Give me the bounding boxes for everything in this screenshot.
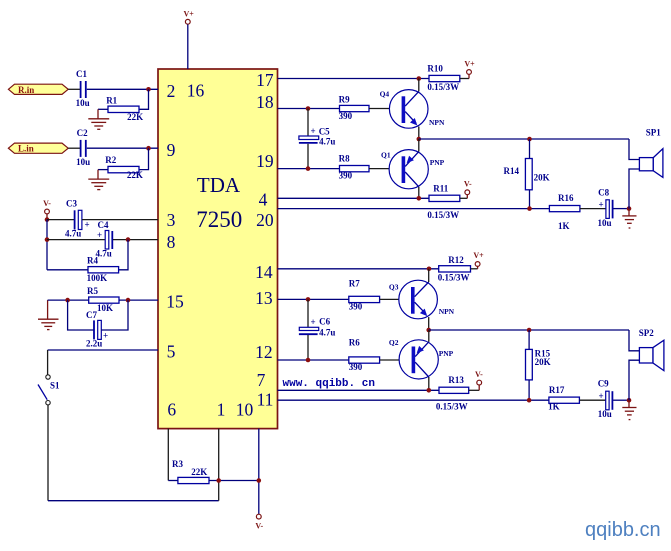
terminal V+ top	[184, 10, 195, 25]
wire R1 to ground	[98, 108, 108, 110]
svg-text:C9: C9	[598, 378, 609, 388]
svg-text:R11: R11	[433, 183, 449, 193]
svg-text:R2: R2	[105, 155, 116, 165]
node Q4 collector junction	[417, 76, 422, 81]
wire pin 1 down	[218, 429, 220, 501]
wire R6 to Q2 base	[380, 359, 421, 361]
svg-text:SP1: SP1	[646, 127, 662, 137]
wire Q2 emitter up	[428, 330, 430, 342]
svg-text:C3: C3	[66, 199, 77, 209]
svg-text:11: 11	[257, 390, 274, 410]
svg-text:R6: R6	[349, 338, 360, 348]
resistor R16	[549, 193, 580, 231]
resistor R6	[349, 338, 380, 372]
switch S1	[38, 375, 60, 405]
resistor R12	[438, 255, 471, 282]
terminal V- bottom	[255, 514, 263, 530]
resistor R4	[87, 256, 119, 283]
node speaker2 ground junction	[627, 398, 632, 403]
svg-text:+: +	[599, 200, 604, 210]
svg-text:22K: 22K	[127, 170, 143, 180]
resistor R1	[106, 96, 143, 123]
wire to C4	[47, 239, 105, 241]
wire L.in to C2	[68, 147, 80, 149]
svg-text:NPN: NPN	[429, 118, 445, 127]
svg-text:16: 16	[187, 81, 205, 101]
svg-text:6: 6	[167, 400, 176, 420]
svg-text:C4: C4	[98, 220, 109, 230]
wire pin 11 row	[278, 399, 549, 401]
svg-text:20: 20	[256, 210, 274, 230]
svg-text:10u: 10u	[76, 98, 90, 108]
capacitor C9	[598, 378, 613, 419]
wire ground to R5	[48, 299, 89, 301]
wire junction down to R4	[119, 240, 128, 270]
svg-text:R14: R14	[504, 166, 520, 176]
terminal V- left	[43, 199, 51, 220]
svg-text:R17: R17	[549, 385, 565, 395]
svg-text:S1: S1	[50, 381, 60, 391]
svg-text:L.in: L.in	[18, 144, 34, 154]
svg-text:10u: 10u	[76, 157, 90, 167]
svg-text:9: 9	[167, 140, 176, 160]
input port R.in	[8, 84, 68, 95]
node mid rail left	[417, 137, 422, 142]
svg-text:4: 4	[259, 190, 268, 210]
capacitor C5	[299, 109, 335, 169]
capacitor C2	[76, 128, 90, 167]
node R5/C7 left junction	[65, 298, 70, 303]
wire switch down	[47, 405, 49, 501]
svg-text:C5: C5	[319, 127, 330, 137]
wire pin 6 down	[167, 429, 169, 481]
svg-text:390: 390	[339, 111, 353, 121]
svg-text:14: 14	[255, 262, 273, 282]
svg-text:V+: V+	[464, 60, 475, 69]
resistor R17	[548, 385, 579, 411]
svg-text:10u: 10u	[598, 218, 612, 228]
svg-text:C8: C8	[598, 188, 609, 198]
transistor Q1 (PNP)	[381, 150, 445, 189]
node pin9/R2 junction	[146, 146, 151, 151]
terminal V+ (R10)	[464, 60, 475, 79]
svg-text:15: 15	[166, 292, 184, 312]
svg-text:qqibb.cn: qqibb.cn	[585, 519, 661, 541]
wire Q3 collector up	[428, 269, 430, 282]
wire pin 19 row	[278, 168, 340, 170]
svg-text:+: +	[311, 126, 316, 136]
svg-text:R5: R5	[87, 286, 98, 296]
svg-text:1: 1	[217, 400, 226, 420]
node Q2 collector junction	[427, 388, 432, 393]
svg-text:390: 390	[349, 301, 363, 311]
node R5/C7 right junction	[126, 298, 131, 303]
svg-text:4.7u: 4.7u	[319, 137, 335, 147]
svg-text:Q3: Q3	[389, 282, 399, 291]
svg-text:0.15/3W: 0.15/3W	[427, 82, 459, 92]
svg-text:TDA: TDA	[197, 173, 241, 197]
wire C8 to ground node	[614, 208, 630, 210]
svg-text:12: 12	[255, 342, 273, 362]
svg-text:7250: 7250	[196, 207, 242, 232]
wire pin 4 row	[278, 197, 430, 199]
svg-text:R9: R9	[339, 94, 350, 104]
wire R14 top	[529, 139, 531, 159]
resistor R5	[87, 286, 119, 313]
wire pin 14 row	[278, 268, 439, 270]
svg-text:4.7u: 4.7u	[319, 327, 335, 337]
svg-text:R.in: R.in	[18, 85, 34, 95]
capacitor C4	[96, 220, 113, 259]
wire R17 to C9	[579, 399, 605, 401]
svg-text:22K: 22K	[191, 467, 207, 477]
svg-text:+: +	[97, 230, 102, 240]
svg-text:PNP: PNP	[439, 349, 454, 358]
wire R.in to C1	[68, 88, 80, 90]
svg-text:V+: V+	[473, 251, 484, 260]
wire R12 to V+	[471, 268, 478, 270]
svg-text:Q4: Q4	[380, 89, 390, 98]
node R14 top junction	[527, 137, 532, 142]
node pin2/R1 junction	[146, 87, 151, 92]
wire junction down to R1	[139, 89, 149, 109]
capacitor C7	[86, 310, 108, 349]
node V-/C3 junction	[45, 217, 50, 222]
terminal V+ (R12)	[473, 251, 484, 269]
node speaker ground junction	[627, 206, 632, 211]
wire pin 17 row	[278, 78, 430, 80]
svg-text:R1: R1	[106, 96, 117, 106]
wire pin 6 to R3	[168, 480, 178, 482]
wire mid rail lower to speaker	[429, 329, 629, 331]
wire R10 to V+	[460, 78, 469, 80]
resistor R2	[105, 155, 143, 180]
wire R16 to C8	[580, 208, 606, 210]
node Q1 collector junction	[417, 196, 422, 201]
wire pin 7 row	[278, 389, 440, 391]
svg-text:+: +	[103, 331, 108, 341]
svg-text:2.2u: 2.2u	[86, 339, 102, 349]
wire R13 to V-	[469, 389, 480, 391]
speaker SP1	[639, 127, 663, 177]
svg-text:V-: V-	[43, 199, 51, 208]
node C6 top junction	[306, 297, 311, 302]
wire R15 top	[528, 330, 530, 349]
wire speaker2 top lead	[629, 330, 639, 351]
wire C9 to ground node	[613, 399, 629, 401]
wire bottom run to pin 1	[48, 500, 219, 502]
resistor R15	[526, 348, 551, 380]
IC U1 TDA7250 body	[158, 69, 278, 429]
svg-text:0.15/3W: 0.15/3W	[436, 402, 468, 412]
wire C7 branch left	[68, 300, 94, 330]
wire Q2 collector down	[428, 377, 430, 390]
resistor R8	[339, 154, 369, 181]
svg-text:10: 10	[236, 400, 254, 420]
svg-text:+: +	[311, 317, 316, 327]
wire Q4 emitter down	[418, 127, 420, 140]
svg-text:R16: R16	[558, 193, 574, 203]
wire pin 5 row	[48, 349, 158, 351]
svg-text:+: +	[599, 391, 604, 401]
svg-text:390: 390	[339, 171, 353, 181]
wire pin 10 down	[258, 429, 260, 515]
svg-text:C6: C6	[319, 317, 330, 327]
wire Q4 collector up	[418, 79, 420, 92]
node mid rail lower left	[426, 328, 431, 333]
capacitor C6	[299, 299, 335, 360]
svg-text:R10: R10	[427, 64, 443, 74]
terminal V- (R11)	[464, 180, 472, 199]
capacitor C1	[76, 69, 90, 108]
wire speaker bottom lead	[629, 169, 639, 209]
svg-text:390: 390	[349, 362, 363, 372]
svg-text:3: 3	[167, 210, 176, 230]
resistor R11	[427, 183, 459, 220]
wire speaker2 bottom lead	[629, 360, 639, 400]
svg-text:19: 19	[256, 151, 274, 171]
wire C3 to pin 3	[82, 219, 158, 221]
transistor Q4 (NPN)	[380, 89, 445, 128]
svg-text:R4: R4	[87, 256, 98, 266]
wire V- node to C3	[47, 219, 74, 221]
resistor R13	[436, 375, 469, 411]
wire R14 bottom	[529, 190, 531, 209]
svg-text:C1: C1	[76, 69, 87, 79]
ground (R5 left)	[38, 300, 59, 330]
wire pin 20 row	[278, 208, 550, 210]
svg-text:Q2: Q2	[389, 338, 399, 347]
wire pin 12 row	[278, 359, 349, 361]
svg-text:R8: R8	[339, 154, 350, 164]
svg-text:20K: 20K	[534, 172, 550, 182]
input port L.in	[8, 143, 68, 154]
svg-text:V-: V-	[255, 522, 263, 531]
wire junction down to R2	[139, 148, 149, 169]
ground (R2)	[88, 170, 109, 190]
wire R4 to left rail	[47, 269, 88, 271]
svg-text:+: +	[85, 220, 90, 230]
wire C1 to pin 2	[87, 88, 158, 90]
node C5 bottom junction	[306, 166, 311, 171]
node C4 row junction left	[45, 237, 50, 242]
wire C2 to pin 9	[87, 147, 158, 149]
wire pin 18 row	[278, 108, 340, 110]
svg-text:V-: V-	[464, 180, 472, 189]
ground (C9/SP2)	[622, 400, 636, 419]
svg-text:V+: V+	[184, 10, 195, 19]
wire R9 to Q4 base	[369, 108, 402, 110]
capacitor C3	[65, 199, 90, 239]
svg-text:100K: 100K	[87, 273, 108, 283]
svg-text:0.15/3W: 0.15/3W	[438, 272, 470, 282]
svg-text:8: 8	[167, 232, 176, 252]
svg-text:17: 17	[256, 70, 274, 90]
wire R8 to Q1 base	[369, 168, 402, 170]
node R14 bottom junction	[527, 206, 532, 211]
terminal V- (R13)	[475, 370, 483, 390]
node C6 bottom junction	[306, 358, 311, 363]
svg-text:1K: 1K	[548, 401, 560, 411]
wire pin5 down to switch	[47, 350, 49, 375]
node R15 top junction	[527, 328, 532, 333]
wire R5 to pin 15	[119, 299, 158, 301]
wire speaker top lead	[629, 139, 639, 160]
svg-text:NPN: NPN	[439, 307, 455, 316]
svg-text:22K: 22K	[127, 112, 143, 122]
svg-text:1K: 1K	[558, 221, 570, 231]
svg-text:SP2: SP2	[639, 328, 655, 338]
wire R15 bottom	[528, 380, 530, 400]
svg-text:10u: 10u	[598, 409, 612, 419]
wire R3 to pin 1 node	[209, 480, 259, 482]
svg-text:5: 5	[167, 342, 176, 362]
svg-text:R7: R7	[349, 279, 360, 289]
svg-text:C2: C2	[77, 128, 88, 138]
wire C4 to pin 8	[113, 239, 158, 241]
svg-text:www. qqibb. cn: www. qqibb. cn	[283, 378, 375, 390]
svg-text:R13: R13	[448, 375, 464, 385]
svg-text:R12: R12	[448, 255, 464, 265]
ground (R1)	[88, 109, 109, 129]
transistor Q3 (NPN)	[389, 280, 455, 319]
svg-text:13: 13	[255, 288, 273, 308]
speaker SP2	[639, 328, 664, 371]
svg-text:18: 18	[256, 92, 274, 112]
svg-text:20K: 20K	[535, 357, 551, 367]
svg-text:C7: C7	[86, 310, 97, 320]
resistor R14	[504, 159, 550, 190]
svg-text:2: 2	[167, 81, 176, 101]
transistor Q2 (PNP)	[389, 338, 454, 379]
node pin10 junction	[257, 478, 262, 483]
wire pin 13 row	[278, 298, 349, 300]
svg-text:0.15/3W: 0.15/3W	[427, 210, 459, 220]
wire C7 branch right	[101, 300, 128, 330]
node R3/pin1 junction	[216, 478, 221, 483]
node Q3 collector junction	[427, 267, 432, 272]
ground (C8/SP1)	[622, 209, 636, 228]
wire V- node down	[46, 220, 48, 270]
resistor R10	[427, 64, 459, 93]
wire R2 to ground	[98, 169, 108, 171]
wire Q3 emitter down	[428, 317, 430, 330]
node R15 bottom junction	[527, 398, 532, 403]
wire mid rail to speaker	[419, 138, 629, 140]
svg-text:PNP: PNP	[430, 158, 445, 167]
svg-text:Q1: Q1	[381, 151, 391, 160]
resistor R3	[172, 459, 209, 484]
capacitor C8	[598, 188, 613, 229]
wire Q1 collector down	[418, 187, 420, 199]
svg-text:7: 7	[257, 370, 266, 390]
wire R7 to Q3 base	[380, 298, 411, 300]
wire Q1 emitter up	[418, 139, 420, 152]
resistor R9	[339, 94, 369, 121]
node C5 top junction	[306, 106, 311, 111]
svg-text:R3: R3	[172, 459, 183, 469]
wire R11 to V-	[460, 197, 468, 199]
resistor R7	[349, 279, 380, 312]
wire pin16 to V+	[187, 24, 189, 69]
node C4/R4 junction	[126, 237, 131, 242]
svg-text:4.7u: 4.7u	[65, 229, 81, 239]
svg-text:10K: 10K	[97, 303, 113, 313]
svg-text:V-: V-	[475, 370, 483, 379]
